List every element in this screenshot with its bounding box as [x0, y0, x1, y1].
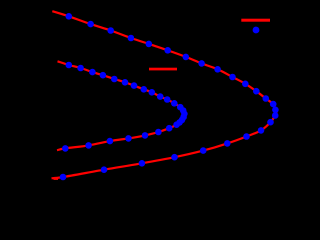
- blue data points: outer branch: [60, 13, 279, 180]
- mid-left red legend segment: [149, 68, 177, 71]
- stray dash at outer curve lower-left end: [54, 179, 59, 180]
- top-right legend red line sample: [241, 19, 270, 22]
- top-right legend blue point sample: [253, 27, 260, 34]
- inner dispersion branch curve (red line): [57, 61, 185, 150]
- outer dispersion branch curve (red line): [52, 11, 277, 178]
- blue data points: inner branch: [62, 62, 188, 152]
